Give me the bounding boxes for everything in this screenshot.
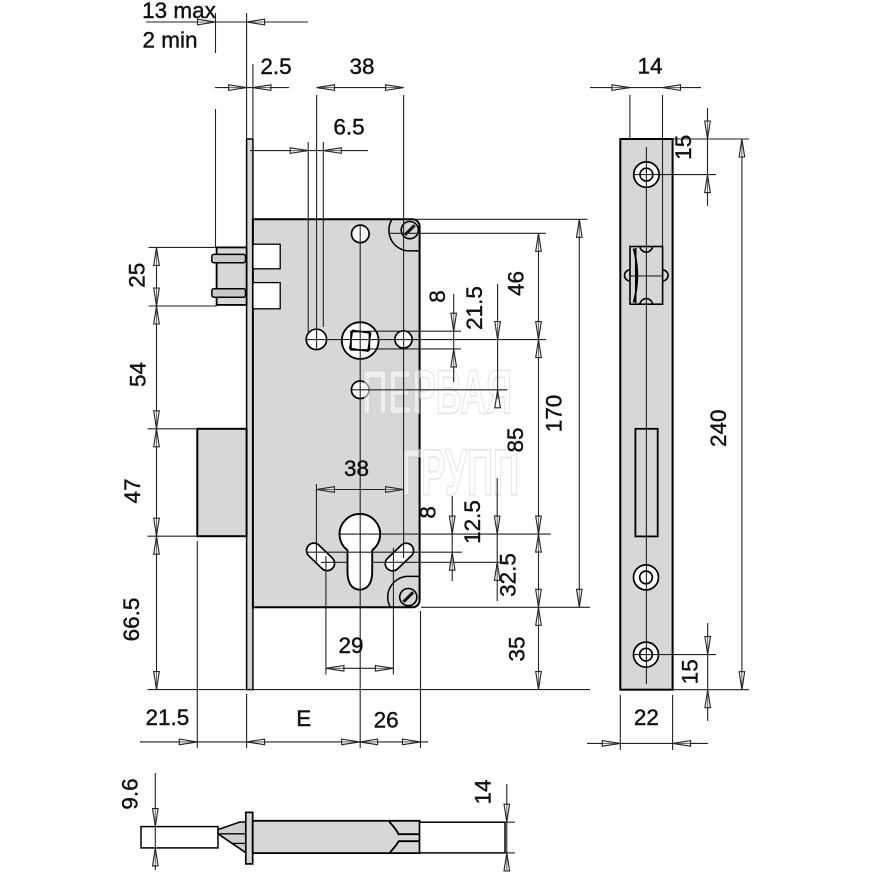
svg-text:14: 14 — [637, 53, 662, 78]
top screw hole (countersunk) — [634, 162, 659, 187]
latch guide tab upper — [212, 254, 246, 262]
plate top extension line — [673, 138, 749, 140]
svg-text:85: 85 — [503, 427, 528, 452]
top screw hole center line — [634, 174, 716, 176]
latch bolt (side view) — [217, 247, 247, 305]
extension lines for left chain — [149, 246, 217, 248]
svg-text:15: 15 — [677, 659, 702, 684]
svg-text:8: 8 — [425, 290, 450, 303]
svg-text:29: 29 — [338, 633, 363, 658]
dim 6.5 — [250, 150, 368, 152]
svg-text:240: 240 — [706, 409, 731, 447]
follower spindle hub circle — [342, 322, 379, 359]
svg-text:6.5: 6.5 — [333, 115, 364, 140]
extension lines bottom dims — [196, 541, 198, 748]
top fixing hole — [352, 225, 370, 243]
svg-text:12.5: 12.5 — [460, 500, 485, 544]
dim 12.5 cylinder to lower slot centers — [496, 478, 498, 601]
deadbolt opening in plate — [635, 429, 657, 537]
svg-text:170: 170 — [542, 395, 567, 433]
svg-text:21.5: 21.5 — [146, 705, 190, 730]
latch bevel head (bottom view) — [218, 822, 246, 853]
extension line body top — [412, 218, 588, 220]
bottom dimension line 21.5 / E / 26 — [140, 741, 428, 743]
latch shaft hidden tail (white) — [420, 822, 505, 853]
svg-text:ПЕРВАЯ: ПЕРВАЯ — [362, 359, 512, 428]
handle rosette hole right — [395, 331, 412, 348]
faceplate cross-section (bottom view) — [246, 812, 253, 864]
cylinder fixing slot left (oblong hole) — [307, 543, 335, 571]
spindle square 8mm hole — [351, 332, 369, 350]
screw bottom-right — [400, 589, 417, 606]
latch opening in plate — [630, 247, 663, 305]
dim 14 faceplate latch opening width — [590, 87, 701, 89]
latch tip bar (bottom view) — [141, 827, 218, 848]
dim 240 faceplate length — [741, 139, 743, 690]
corner boss top-right with line — [389, 219, 420, 251]
svg-text:13 max: 13 max — [142, 0, 217, 23]
svg-text:2 min: 2 min — [142, 28, 197, 53]
dim 29 (slot holes lower spacing) — [326, 667, 394, 669]
right dimension chain 46 / 85 / 32.5 / 35 — [538, 233, 540, 689]
svg-text:54: 54 — [126, 362, 151, 387]
spindle square top line (8 dim extension) — [370, 330, 462, 332]
extension line from top-right screw (46 dim) — [389, 232, 546, 234]
cylinder horizontal centerline — [339, 533, 550, 535]
dim 38 bottom (slot holes upper spacing) — [316, 489, 403, 491]
middle screw hole — [634, 565, 659, 590]
dim 15 bottom (screw to plate bottom) — [707, 623, 709, 721]
dim 38 top (handle holes spacing) — [317, 87, 404, 89]
deadbolt (thrown, side view) — [197, 429, 246, 536]
dim 21.5 spindle to small hole — [497, 284, 499, 399]
dim 170 overall case height — [578, 219, 580, 607]
faceplate (side view, 2.5mm strip) — [247, 139, 253, 690]
slot-hole upper centers line — [306, 551, 462, 553]
bottom screw hole center line — [634, 654, 716, 656]
extension line body bottom — [421, 606, 590, 608]
svg-text:21.5: 21.5 — [462, 286, 487, 330]
dim 14 latch shaft width (bottom view) — [506, 784, 508, 870]
latch opening scallops — [640, 247, 653, 253]
dim 22 faceplate width — [587, 742, 708, 744]
dim 13 max / 2 min (latch protrusion) — [146, 21, 308, 23]
latch face extension line — [215, 109, 217, 247]
svg-text:ГРУПП: ГРУПП — [401, 435, 519, 509]
svg-text:38: 38 — [344, 456, 369, 481]
euro profile cylinder hole — [340, 514, 381, 590]
horizontal centerline through handle holes and spindle — [306, 339, 546, 341]
left dimension chain 25 / 54 / 47 / 66.5 — [156, 247, 158, 689]
vertical axis centerline through spindle and cylinder — [359, 225, 361, 748]
dim 15 top (plate top to screw) — [707, 108, 709, 206]
cylinder fixing slot right (oblong hole) — [385, 543, 413, 571]
faceplate vertical centerline — [645, 147, 647, 684]
latch shaft (bottom view) — [253, 821, 420, 853]
svg-text:46: 46 — [504, 271, 529, 296]
dim 2.5 faceplate thickness — [215, 87, 289, 89]
svg-text:22: 22 — [634, 705, 659, 730]
svg-text:35: 35 — [505, 636, 530, 661]
svg-text:25: 25 — [125, 263, 150, 288]
plate bottom extension line — [673, 689, 749, 691]
lock case body — [253, 219, 420, 607]
svg-text:26: 26 — [374, 707, 399, 732]
faceplate front view plate — [620, 139, 672, 690]
svg-text:66.5: 66.5 — [119, 598, 144, 642]
svg-text:8: 8 — [416, 506, 441, 519]
small hole below spindle — [351, 381, 369, 399]
small hole centerline extension — [352, 389, 508, 391]
latch tail slot upper (white cutout) — [253, 244, 280, 269]
handle rosette hole left — [306, 329, 326, 349]
spindle square rotated position — [350, 330, 371, 351]
latch guide tab lower — [212, 289, 246, 298]
svg-text:9.6: 9.6 — [118, 778, 143, 809]
svg-text:47: 47 — [120, 478, 145, 503]
slot-hole lower centers line — [321, 561, 348, 563]
latch opening horizontal centerline — [629, 275, 664, 277]
latch bevel edge lines in opening — [635, 248, 637, 303]
corner boss bottom-right with line — [388, 576, 420, 607]
dim 8 cylinder to upper slot centers — [451, 496, 453, 581]
svg-text:2.5: 2.5 — [260, 54, 291, 79]
bottom screw hole — [634, 642, 659, 667]
svg-text:38: 38 — [349, 54, 374, 79]
dim 8 spindle square — [453, 294, 455, 382]
svg-text:E: E — [296, 706, 311, 731]
long bottom extension line y=689.6 (faceplate bottom level) — [148, 689, 591, 691]
latch tail slot lower (white cutout) — [253, 283, 280, 309]
dim 9.6 latch tip width — [154, 773, 156, 870]
svg-text:14: 14 — [471, 779, 496, 804]
screw top-right — [401, 222, 418, 239]
spring fork slot in shaft — [389, 822, 419, 835]
spindle square bottom line (8 dim extension) — [370, 348, 462, 350]
